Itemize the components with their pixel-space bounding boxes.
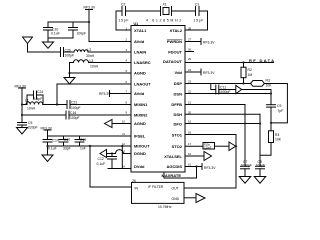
svg-text:4: 4	[125, 59, 127, 63]
svg-text:U1: U1	[134, 22, 139, 26]
svg-text:3.3pF: 3.3pF	[34, 97, 43, 101]
svg-text:25: 25	[188, 57, 192, 61]
wire AVdd row2	[89, 41, 131, 43]
svg-text:7pF: 7pF	[278, 109, 284, 113]
svg-text:AVdd: AVdd	[134, 39, 145, 44]
arrow right	[204, 152, 212, 161]
svg-text:28: 28	[188, 27, 192, 31]
svg-text:DFO: DFO	[174, 122, 182, 127]
capacitor C21	[66, 101, 68, 109]
arrow right	[236, 85, 242, 93]
svg-text:23: 23	[188, 80, 192, 84]
svg-text:22: 22	[188, 90, 192, 94]
svg-text:R4: R4	[275, 133, 279, 137]
wire top xtal net	[116, 11, 131, 30]
wire STO1 row11 loop from IF filter	[184, 135, 236, 189]
svg-text:MIXIN2: MIXIN2	[134, 113, 148, 118]
IC U1 body	[131, 26, 185, 173]
wire XTALSEL row13	[185, 155, 204, 157]
component box row12	[203, 143, 215, 150]
svg-text:C9: C9	[277, 104, 281, 108]
svg-text:C21: C21	[71, 101, 77, 105]
svg-text:IN: IN	[135, 187, 139, 191]
wire STO2 row12	[185, 145, 203, 147]
wire antenna to C20	[28, 51, 61, 53]
capacitor C9	[267, 104, 276, 106]
svg-text:DGND: DGND	[134, 151, 146, 156]
svg-text:7: 7	[125, 90, 127, 94]
svg-text:RF3.3V: RF3.3V	[204, 166, 216, 170]
power label RF3.3V mid-left	[44, 129, 51, 131]
ground	[239, 177, 251, 184]
branch C11	[211, 84, 216, 90]
svg-text:C1: C1	[195, 3, 199, 7]
wire rail top-left	[48, 21, 89, 23]
capacitor C11	[215, 85, 217, 94]
svg-text:0.1uF: 0.1uF	[51, 32, 60, 36]
wire row14	[108, 168, 131, 170]
ground arrow row13	[100, 150, 107, 158]
svg-text:L1: L1	[25, 99, 29, 103]
svg-text:9: 9	[125, 110, 127, 114]
svg-text:R3: R3	[266, 79, 270, 83]
svg-text:C5: C5	[28, 121, 32, 125]
svg-text:AGND: AGND	[134, 121, 146, 126]
capacitor C8	[256, 165, 265, 167]
svg-text:14: 14	[122, 165, 126, 169]
ground arrow right	[196, 194, 205, 203]
capacitor C20	[60, 48, 62, 57]
svg-text:AGCDIS: AGCDIS	[166, 164, 182, 169]
svg-text:LNAIN: LNAIN	[134, 50, 146, 55]
wire LNAIN	[88, 51, 131, 53]
svg-text:10K: 10K	[275, 138, 282, 142]
capacitor C2	[121, 7, 123, 16]
svg-text:15pF: 15pF	[119, 19, 129, 23]
svg-text:10: 10	[122, 120, 126, 124]
wire IF OUT	[184, 187, 236, 189]
svg-text:XTAL1: XTAL1	[134, 28, 147, 33]
svg-text:20: 20	[188, 110, 192, 114]
svg-text:21: 21	[188, 101, 192, 105]
svg-text:RF3.3V: RF3.3V	[41, 127, 53, 131]
svg-text:C14: C14	[53, 139, 59, 143]
wire AGND row5	[70, 72, 132, 74]
svg-text:C2: C2	[121, 3, 125, 7]
svg-text:LNAOUT: LNAOUT	[134, 82, 151, 87]
capacitor C12	[111, 154, 113, 157]
inductor L1	[26, 102, 43, 105]
ground	[43, 42, 54, 48]
svg-text:C20: C20	[65, 49, 71, 53]
ground arrow row10	[105, 120, 113, 128]
wire cap bottoms	[48, 30, 73, 38]
ground	[254, 177, 266, 184]
crystal X1	[160, 7, 162, 16]
wire DSP row6	[185, 83, 251, 85]
wire ground rail row12	[48, 145, 132, 147]
wire supply rail row11	[48, 135, 132, 137]
svg-text:FDOUT: FDOUT	[168, 50, 182, 55]
wire FDOUT stub	[185, 51, 194, 53]
svg-text:MIXIN1: MIXIN1	[134, 102, 148, 107]
svg-text:XTAL2: XTAL2	[170, 28, 183, 33]
svg-text:24: 24	[188, 68, 192, 72]
pin numbers right	[188, 27, 192, 167]
wires DFFB DSH DFO rows	[185, 104, 245, 106]
svg-text:100pF: 100pF	[65, 54, 75, 58]
svg-text:13: 13	[122, 150, 126, 154]
capacitor C14	[43, 139, 52, 141]
capacitor C17	[63, 136, 65, 140]
power label RF3.3V row7	[109, 91, 111, 97]
svg-text:10nH: 10nH	[27, 107, 36, 111]
resistor R3 pill	[251, 81, 265, 87]
svg-text:STO2: STO2	[172, 144, 183, 149]
svg-text:C16: C16	[70, 111, 76, 115]
svg-text:26: 26	[132, 179, 136, 183]
arrow right	[229, 142, 236, 151]
capacitor C24	[27, 95, 34, 105]
svg-text:15pF: 15pF	[194, 19, 204, 23]
svg-text:1M: 1M	[248, 73, 253, 77]
capacitor C5	[18, 122, 27, 124]
svg-text:R2: R2	[248, 68, 252, 72]
wire to IF filter	[90, 146, 132, 187]
resistor R2	[243, 63, 245, 68]
capacitor C1	[195, 7, 197, 16]
svg-text:IF FILTER: IF FILTER	[148, 185, 164, 189]
svg-text:MIXOUT: MIXOUT	[134, 144, 150, 149]
svg-text:LNASRC: LNASRC	[134, 60, 151, 65]
svg-text:AGND: AGND	[134, 71, 146, 76]
svg-text:100pF: 100pF	[70, 116, 80, 120]
svg-text:1nF: 1nF	[80, 147, 86, 151]
svg-text:100pF: 100pF	[256, 163, 266, 167]
svg-text:DATAOUT: DATAOUT	[163, 59, 183, 64]
inductor L3	[70, 63, 74, 74]
svg-text:1000pF: 1000pF	[219, 90, 231, 94]
svg-text:100pF: 100pF	[71, 106, 81, 110]
svg-text:C11: C11	[220, 86, 226, 90]
IC right pin names	[162, 28, 183, 178]
svg-text:30nH: 30nH	[86, 54, 95, 58]
svg-text:RF3.3V: RF3.3V	[84, 6, 96, 10]
wire Vdd to RF3.3V	[185, 71, 201, 73]
small component labels	[15, 3, 284, 210]
svg-text:L2: L2	[88, 48, 92, 52]
svg-text:PWRDN: PWRDN	[167, 39, 182, 44]
wire MIXIN2 row9	[22, 114, 66, 116]
wire MIXIN1 row8	[43, 104, 67, 106]
svg-text:3: 3	[125, 48, 127, 52]
svg-text:C19: C19	[80, 138, 86, 142]
svg-text:10.7MHz: 10.7MHz	[158, 205, 172, 209]
capacitor 100pF top-left	[72, 22, 74, 28]
svg-text:0.1uF: 0.1uF	[97, 162, 106, 166]
capacitor C16	[65, 111, 67, 119]
svg-text:2: 2	[125, 38, 127, 42]
svg-text:X1: X1	[163, 3, 167, 7]
inductor L2	[74, 50, 88, 52]
pin numbers left	[122, 27, 128, 169]
capacitor C19	[79, 136, 81, 140]
svg-text:DFFB: DFFB	[171, 102, 182, 107]
svg-text:1000pF: 1000pF	[241, 163, 253, 167]
svg-text:L3: L3	[90, 59, 94, 63]
svg-text:10nH: 10nH	[90, 65, 99, 69]
svg-text:6: 6	[125, 80, 127, 84]
svg-text:RF DATA: RF DATA	[249, 58, 274, 63]
svg-text:11: 11	[122, 132, 125, 136]
ground	[17, 128, 28, 135]
svg-text:0.1uF: 0.1uF	[48, 147, 57, 151]
svg-text:GND: GND	[172, 197, 180, 201]
svg-text:Vdd: Vdd	[174, 70, 182, 75]
svg-text:RF3.3V: RF3.3V	[203, 41, 215, 45]
wire LNAOUT row6	[57, 84, 131, 105]
wire DSN row7	[185, 93, 271, 95]
svg-text:C17: C17	[64, 138, 70, 142]
svg-text:DSH: DSH	[174, 112, 183, 117]
wire MAXRATE	[164, 167, 197, 179]
capacitor C7	[241, 165, 250, 167]
power label RF3.3V tank	[19, 87, 26, 89]
ground	[42, 155, 53, 162]
svg-text:MAXRATE: MAXRATE	[162, 173, 182, 178]
svg-text:33pF: 33pF	[63, 147, 71, 151]
svg-text:DVdd: DVdd	[134, 164, 145, 169]
svg-text:12: 12	[122, 142, 126, 146]
wire IF GND	[184, 197, 196, 199]
svg-text:100pF: 100pF	[77, 32, 87, 36]
svg-text:15: 15	[188, 163, 192, 167]
svg-text:5: 5	[125, 69, 127, 73]
svg-text:XTALSEL: XTALSEL	[164, 154, 182, 159]
svg-text:C10uF: C10uF	[204, 146, 212, 149]
svg-text:220pF: 220pF	[28, 126, 38, 130]
ground	[69, 73, 71, 78]
svg-text:8: 8	[125, 101, 127, 105]
wire PWRDN to RF3.3V	[185, 41, 201, 43]
power label RF3.3V top-left	[86, 9, 93, 11]
svg-text:RF3.3V: RF3.3V	[15, 85, 27, 89]
svg-text:27: 27	[188, 38, 192, 42]
svg-text:17: 17	[188, 142, 192, 146]
svg-text:26: 26	[188, 48, 192, 52]
svg-text:18: 18	[188, 131, 192, 135]
resistor R4	[269, 131, 274, 143]
svg-text:AVdd: AVdd	[134, 91, 145, 96]
svg-text:IFSEL: IFSEL	[134, 134, 146, 139]
wire DATAOUT / RF DATA	[185, 62, 274, 64]
wire AGCDIS to RF3.3V	[185, 166, 202, 168]
svg-text:RF3.3V: RF3.3V	[99, 92, 111, 96]
IF FILTER box	[132, 182, 185, 203]
svg-text:DSP: DSP	[174, 81, 183, 86]
svg-text:10K: 10K	[266, 84, 273, 88]
svg-text:OUT: OUT	[172, 187, 179, 191]
wire DGND drop	[121, 146, 123, 169]
svg-text:4.61285MHz: 4.61285MHz	[146, 19, 181, 23]
svg-text:DSN: DSN	[174, 92, 183, 97]
svg-text:16: 16	[188, 152, 192, 156]
wire to XTAL2	[185, 11, 208, 30]
svg-text:C24: C24	[37, 90, 43, 94]
antenna	[23, 37, 33, 44]
capacitor C10	[47, 22, 49, 28]
svg-text:RF3.3V: RF3.3V	[203, 71, 215, 75]
svg-text:C12: C12	[98, 157, 104, 161]
svg-text:19: 19	[188, 120, 192, 124]
wire LNASRC	[89, 62, 132, 64]
wire row13 with hop	[107, 153, 116, 155]
svg-text:STO1: STO1	[172, 133, 183, 138]
